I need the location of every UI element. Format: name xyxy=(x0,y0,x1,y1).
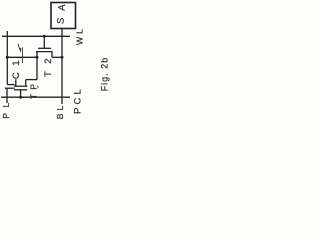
wire left vertical to C1 top plate xyxy=(6,31,8,85)
wire BL vertical from SA to bottom xyxy=(61,29,63,105)
svg-text:BL: BL xyxy=(55,103,65,120)
svg-text:WL: WL xyxy=(75,26,85,45)
wire C1 bottom lead to PL terminal xyxy=(6,88,8,103)
wire WL horizontal xyxy=(2,35,70,37)
svg-text:T2: T2 xyxy=(43,51,54,77)
capacitor C1 top plate xyxy=(7,84,14,86)
transistor TP right lead xyxy=(25,80,27,87)
wire PCL horizontal xyxy=(1,96,70,98)
svg-text:Fig. 2b: Fig. 2b xyxy=(100,57,110,92)
svg-text:PL: PL xyxy=(1,97,11,119)
wire storage node left segment xyxy=(7,56,37,58)
node junction dot left xyxy=(6,56,9,59)
label tick prime mark near TP xyxy=(37,86,40,89)
transistor TP gate bar xyxy=(14,89,27,91)
svg-text:SA: SA xyxy=(55,0,68,25)
transistor T2 gate bar xyxy=(38,47,51,49)
transistor T2 channel bar xyxy=(36,51,53,53)
wire TP right connector xyxy=(26,79,37,81)
transistor T2 gate lead xyxy=(43,36,45,48)
wire node to BL xyxy=(52,56,62,58)
transistor T2 left lead xyxy=(36,52,38,80)
sense amplifier SA box xyxy=(51,3,76,29)
transistor T2 right lead xyxy=(51,52,53,58)
transistor TP gate lead xyxy=(20,90,22,97)
node arrow marker at storage node xyxy=(18,44,22,63)
svg-text:TP: TP xyxy=(29,80,39,99)
transistor TP left lead xyxy=(15,79,17,86)
transistor TP channel bar xyxy=(14,85,27,87)
capacitor C1 bottom plate xyxy=(5,87,15,89)
node junction dot TP gate on PCL xyxy=(19,96,22,99)
node junction dot T2 left lead xyxy=(36,56,39,59)
svg-text:PCL: PCL xyxy=(73,86,84,114)
node junction dot WL-gate xyxy=(43,35,46,38)
svg-text:C1: C1 xyxy=(11,54,22,79)
node junction dot on BL xyxy=(61,56,64,59)
